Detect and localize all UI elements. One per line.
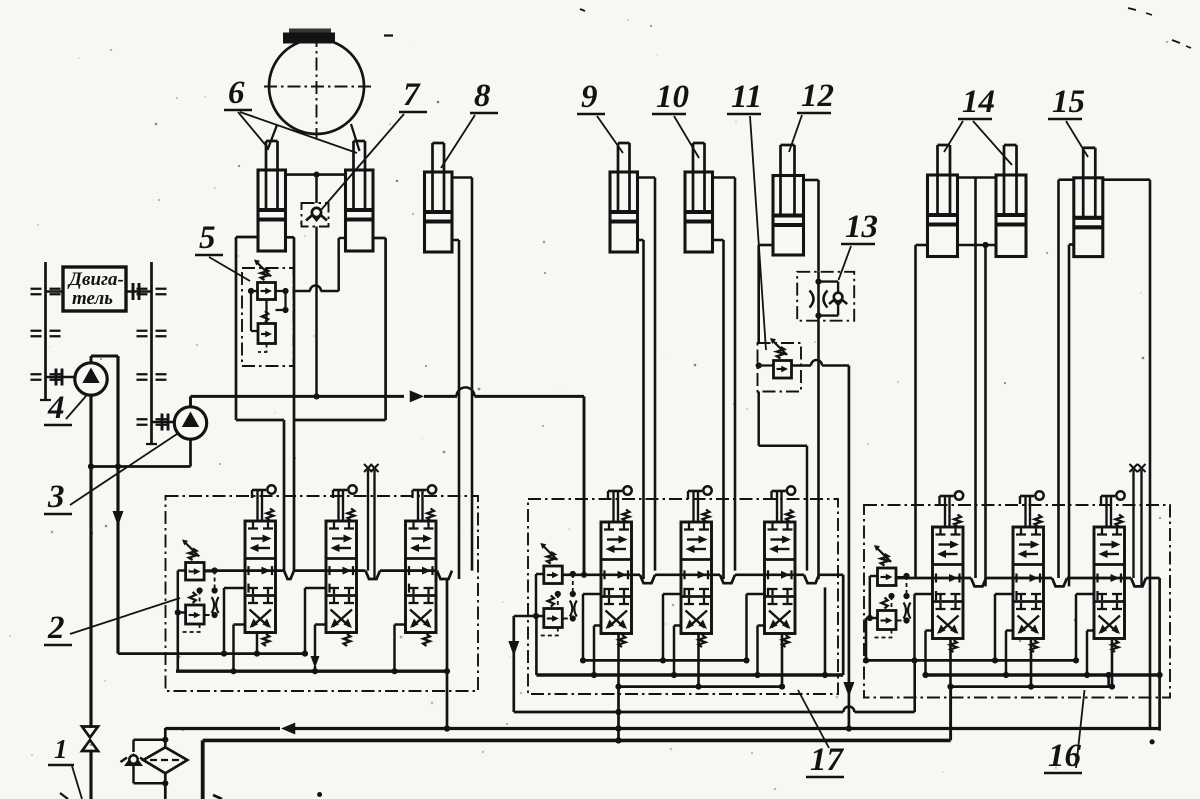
valve group 17 directional valve 3 [765, 486, 796, 647]
svg-text:5: 5 [199, 220, 216, 256]
filter [143, 747, 187, 773]
relief valve 5 upper [254, 260, 276, 300]
wire cyl 6 left bottom-right port [286, 236, 295, 239]
valve group 2 pressure rail [204, 571, 452, 579]
svg-text:Двига-: Двига- [67, 269, 124, 290]
valve group 2 manifold line 2 [176, 670, 447, 673]
svg-text:3: 3 [47, 479, 65, 515]
svg-text:6: 6 [228, 75, 245, 111]
junction dot check7 line [313, 393, 319, 399]
svg-text:4: 4 [47, 390, 65, 426]
label 10 [652, 79, 699, 158]
label 16 [1044, 690, 1085, 774]
label 7 [321, 77, 427, 210]
valve group 16 manifold line 2 [926, 673, 1160, 676]
valve group 16 pressure rail [896, 578, 1146, 586]
svg-text:15: 15 [1052, 84, 1085, 120]
wire cyl 15 top port left [1059, 180, 1074, 578]
filter main line [162, 728, 168, 799]
pump 3 [174, 407, 206, 439]
wire x118 vertical [116, 356, 119, 654]
svg-text:9: 9 [581, 79, 598, 115]
cylinder 14 left [928, 145, 958, 257]
valve group 16 valve 2 tank drops [992, 594, 1034, 690]
wire pressure drop to group 2 [583, 396, 586, 574]
wire block 13 down [817, 321, 820, 579]
valve group 17 valve 3 tank drops [743, 594, 785, 690]
wire cyl 15 bottom port [1069, 245, 1074, 587]
wire pump 4 outlet up-right [91, 356, 118, 363]
wire right frame vertical [384, 238, 387, 420]
wire pumps bottom tie [88, 463, 191, 469]
cylinder 9 [610, 143, 638, 252]
plugged lines group 16 [1130, 464, 1146, 586]
label 14 [944, 84, 1012, 165]
group 2 valve 3 tank drops [391, 625, 405, 675]
group 2 valve 2 tank drops [302, 588, 326, 674]
svg-text:13: 13 [845, 209, 878, 245]
group 17 rail tail [819, 575, 843, 675]
label 11 [727, 79, 766, 350]
engine shaft right [126, 283, 152, 300]
svg-text:2: 2 [47, 610, 65, 646]
cylinder 10 [685, 143, 713, 252]
engine shaft left [46, 290, 64, 292]
valve group 17 manifold line 3 [618, 685, 782, 688]
valve group 16 valve 3 tank drops [1073, 594, 1115, 690]
valve group 17 manifold line 2 [536, 673, 843, 676]
node between cylinders 6 [313, 172, 319, 178]
label 17 [798, 690, 845, 778]
filter bypass check valve [121, 740, 166, 784]
drum centerlines [264, 34, 372, 139]
drum (pulley) circle [269, 39, 364, 134]
wire cyl 14 left bottom-left port [916, 245, 928, 578]
valve group 2 valve 3 tank drops [0, 0, 1, 1]
drive to pump 3 [152, 414, 175, 431]
valve group 2 valve 2 tank drops [0, 0, 1, 1]
label 3 [44, 434, 177, 515]
valve group 16 directional valve 3 [1094, 491, 1125, 652]
shutoff valve 1 [82, 727, 98, 752]
wire cylinder-6 top ports [286, 173, 346, 176]
wire cyl 10 top port [713, 178, 736, 571]
cylinder 12 [773, 145, 804, 255]
wire cyl14 bottoms tie [958, 242, 997, 248]
wire drop x284 [283, 420, 286, 571]
gearbox left shaft [31, 262, 61, 400]
block 13 [797, 272, 854, 321]
valve group 16 directional valve 1 [933, 491, 964, 652]
wire cyl 12 top port to block 13 [804, 180, 819, 272]
wire drop x294 [293, 237, 296, 570]
gearbox right shaft [137, 262, 167, 444]
wire cyl14 tops tie [958, 176, 997, 179]
label 1 [48, 734, 82, 799]
group 17 right drop [615, 687, 621, 744]
label 4 [44, 390, 86, 426]
valve group 16 relief valve pair [867, 545, 911, 638]
wire cyl 6 right bottom-right port [373, 237, 386, 240]
wire cyl 9 bottom port [638, 240, 644, 579]
svg-text:тель: тель [72, 288, 113, 309]
label 8 [441, 78, 498, 168]
label 12 [789, 78, 834, 152]
group 16 relief tank line [863, 618, 913, 664]
valve group 17 valve 2 tank drops [660, 594, 702, 690]
wire cyl 6 left bottom-left port [236, 236, 258, 239]
svg-text:8: 8 [474, 78, 491, 114]
group 17 relief tank line [514, 616, 536, 712]
valve group 2 relief valve pair [175, 540, 219, 633]
group 17 manifold B left riser [535, 616, 538, 675]
pump 4 [75, 363, 107, 395]
label 6 [224, 75, 357, 153]
label 15 [1048, 84, 1088, 157]
valve group 2 directional valve 1 [245, 485, 276, 646]
label 5 [195, 220, 250, 281]
wire node to check valve 7 [315, 175, 317, 203]
valve group 17 pressure rail [562, 575, 819, 583]
group 17 jog drop [822, 587, 828, 678]
valve block 5 enclosure [242, 268, 294, 366]
wire valve 11 output right [792, 360, 849, 729]
pump 3 feed dot [581, 572, 587, 578]
group17 lower tie [514, 707, 915, 716]
valve group 17 manifold line 1 [583, 659, 747, 662]
valve group 2 valve 1 tank drops [0, 0, 1, 1]
valve group 16 manifold line 1 [913, 659, 1076, 662]
flow arrow down on x848 [843, 682, 854, 697]
block 5 internal wires [248, 288, 289, 352]
wire pump 3 outlet [189, 396, 192, 407]
drum mount support [283, 29, 335, 44]
svg-text:10: 10 [656, 79, 689, 115]
group 2 right drop [444, 579, 450, 732]
valve group 2 enclosure [166, 496, 479, 691]
valve group 2 directional valve 2 [326, 485, 357, 646]
flow arrow down on x118 [113, 511, 124, 526]
svg-text:11: 11 [731, 79, 762, 115]
check valve 7 [302, 203, 329, 227]
tank return line with arrow [165, 723, 1159, 735]
wire check valve 7 down to pump line [315, 227, 317, 397]
cylinder 8 [425, 143, 453, 252]
wire valve 11 tank down [759, 392, 807, 571]
wire pump 3 bottom [189, 439, 192, 467]
label 9 [577, 79, 623, 153]
cylinder 14 right [996, 145, 1026, 257]
cylinder 6 right [346, 141, 374, 251]
valve group 17 directional valve 1 [601, 486, 632, 647]
flow arrow down on x513 [508, 641, 519, 656]
svg-text:12: 12 [801, 78, 834, 114]
wire cyl 15 top port right [1103, 180, 1150, 729]
valve group 16 valve 1 tank drops [911, 594, 953, 690]
valve 11 block [756, 338, 801, 392]
label 13 [839, 209, 879, 280]
group 16 extra verticals [915, 660, 1112, 740]
svg-text:1: 1 [54, 734, 68, 764]
drum cable to left cylinder rod [268, 125, 278, 150]
group 2 relief left bus down [177, 613, 180, 672]
valve group 17 enclosure [528, 499, 838, 694]
wire valve 1 to tank [89, 751, 92, 799]
valve group 17 valve 1 tank drops [580, 594, 622, 690]
pressure line from pump 3 [191, 387, 585, 402]
cylinder 15 [1074, 148, 1103, 257]
wire cyl14 drop A [974, 178, 977, 579]
engine box [63, 267, 126, 311]
svg-text:14: 14 [962, 84, 995, 120]
svg-text:17: 17 [810, 742, 845, 778]
wire frame bottom U [236, 419, 386, 422]
relief valve 5 lower [258, 311, 276, 344]
plugged lines group 1 [364, 464, 379, 579]
label 2 [44, 598, 180, 646]
valve group 16 manifold line 3 [951, 685, 1112, 688]
valve group 2 manifold line 1 [118, 652, 305, 655]
wire cyl 8 top port [452, 178, 472, 571]
valve group 16 enclosure [864, 505, 1170, 698]
wire cyl 10 bottom port [713, 240, 724, 579]
group 2 valve 1 tank drops [221, 588, 260, 674]
drive to pump 4 [46, 369, 75, 386]
cylinder 6 left [258, 141, 286, 251]
wire cyl 8 bottom port [452, 240, 459, 579]
valve group 2 directional valve 3 [406, 485, 437, 646]
wire left frame vertical [235, 237, 238, 420]
valve group 17 relief valve pair [533, 543, 577, 636]
wire cyl 12 bottom port to valve 11 [759, 245, 773, 343]
wire block 5 output to cylinder 6b [294, 238, 346, 291]
wire cyl 9 top port [638, 178, 656, 571]
valve group 17 directional valve 2 [681, 486, 712, 647]
bottom collector line [203, 737, 951, 799]
group 16 rail end drop [1146, 578, 1163, 731]
drum cable to right cylinder rod [351, 124, 360, 151]
wire pump 4 suction down [89, 395, 92, 728]
svg-text:7: 7 [403, 77, 421, 113]
wire cyl14 drop B [984, 245, 987, 586]
valve group 16 directional valve 2 [1013, 491, 1044, 652]
